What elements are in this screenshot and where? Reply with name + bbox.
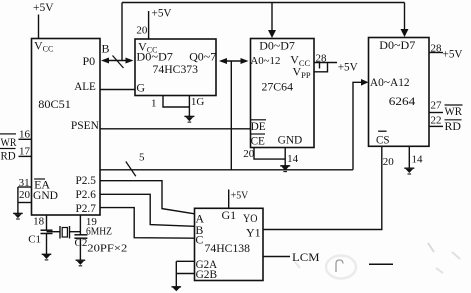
svg-text:C: C [195,233,203,247]
wire 80C51 pin31 EA stub [18,186,32,188]
watermark glyph [336,260,343,272]
svg-text:YO: YO [243,211,258,225]
block U2 74HC373 [135,39,216,96]
svg-text:+5V: +5V [443,47,463,61]
svg-text:74HC138: 74HC138 [205,241,251,255]
wire 6264 pin28 to +5V [429,52,443,54]
svg-text:20: 20 [243,148,255,160]
wire C2 lower lead [79,238,81,260]
block U4 6264 [369,38,430,147]
svg-text:+5V: +5V [231,190,249,202]
svg-text:+5V: +5V [152,5,172,19]
svg-text:G1: G1 [222,208,237,222]
wire 27C64 VCC pin28 to +5V [314,62,337,64]
svg-text:G2B: G2B [196,267,218,281]
wire 1G to ground [188,96,190,117]
wire G2A-G2B to ground [175,261,177,286]
wire crystal right lead [70,231,81,233]
svg-text:31: 31 [19,177,30,189]
svg-text:+5V: +5V [338,59,358,73]
wire 80C51 pin17 stub [19,155,33,157]
wire 74HC373 pin1 jog [163,96,189,108]
bus arrow P0 to D0-D7 [101,58,134,64]
svg-text:C2: C2 [75,237,88,249]
ground below 1G [184,116,194,122]
wire PSEN to DE [100,128,251,130]
wire 6264 pin22 RD [429,125,443,127]
wire crystal left lead [47,231,61,233]
svg-text:P2.5: P2.5 [76,175,97,187]
wire 6264 pin14 ground stem [408,146,410,168]
wire 80C51 pin16 stub [19,138,33,140]
svg-text:D0~D7: D0~D7 [379,38,415,52]
wire P2.7 to C [100,208,195,239]
svg-text:G: G [136,81,145,95]
svg-text:20: 20 [383,156,395,168]
svg-text:1G: 1G [191,96,205,108]
svg-text:80C51: 80C51 [38,97,71,111]
svg-text:14: 14 [412,154,424,166]
svg-text:D0~D7: D0~D7 [259,39,295,53]
svg-text:RD: RD [445,119,462,133]
svg-text:20: 20 [19,189,31,201]
wire top bus left drop to P0 bus [121,3,123,61]
wire address bus riser to 6264 [353,82,362,170]
wire P2.6 to B [100,194,195,226]
svg-text:1: 1 [151,98,157,110]
svg-text:C1: C1 [28,234,41,246]
wire 27C64 pin20-pin14 ground [254,148,285,160]
svg-text:LCM: LCM [292,250,320,264]
wire C1 lower lead [46,234,48,255]
wire address bus P2.0-P2.4 [100,169,353,171]
bus arrow Q0-7 to A0-12 [219,58,249,64]
svg-text:CS: CS [376,132,390,146]
wire 6264 pin27 WR [429,112,443,114]
svg-text:GND: GND [278,135,303,147]
svg-text:P2.7: P2.7 [76,203,97,215]
capacitor C2 plates [74,235,87,238]
svg-text:GND: GND [33,190,58,202]
arrowhead into 27C64 D0-D7 [268,30,276,38]
watermark dash [369,263,393,265]
svg-text:27C64: 27C64 [262,80,294,94]
svg-text:17: 17 [19,146,31,158]
svg-text:WR: WR [1,135,17,149]
arrowhead into 6264 A0-A12 [361,79,369,86]
ground 27C64 pin14 [280,166,290,172]
svg-text:6MHZ: 6MHZ [86,226,112,238]
wire +5V supply to 80C51 VCC [38,15,40,40]
bus slash 5 [126,162,136,177]
wire G2A [176,260,194,262]
wire Y0 to LCM [263,256,290,258]
svg-text:28: 28 [316,52,328,64]
wire +5V to 74HC373 pin20 [148,11,150,39]
wire 27C64 drop from top bus [271,3,273,32]
svg-text:6264: 6264 [389,94,416,108]
crystal Y1 6MHZ [60,226,70,239]
svg-text:DE: DE [251,119,266,133]
arrowhead into 6264 D0-D7 [401,29,409,37]
wire top data bus horizontal [122,2,405,4]
ground below EA/GND [13,213,23,219]
svg-text:28: 28 [431,43,443,55]
svg-text:P2.6: P2.6 [76,189,97,201]
wire G2B [176,273,194,275]
svg-text:ALE: ALE [74,79,96,93]
block U1 80C51 [32,39,101,216]
svg-text:Y1: Y1 [246,226,261,240]
wire Y1 to 6264 CS [263,146,382,229]
svg-text:CE: CE [251,133,265,147]
svg-text:27: 27 [431,100,443,112]
svg-text:22: 22 [431,115,442,127]
svg-text:A0~A12: A0~A12 [370,77,410,89]
wire EA-GND to ground [17,187,19,213]
wire XTAL1 pin18 [46,215,48,230]
wire 27C64 VPP bracket [314,63,328,72]
svg-text:20: 20 [136,25,148,37]
svg-text:+5V: +5V [33,0,54,14]
wire ALE to G [100,89,135,91]
svg-text:5: 5 [139,151,145,163]
svg-text:18: 18 [33,216,45,228]
ground below G2B [172,287,182,291]
wire Q bus drop to address bus [230,61,232,170]
wire +5V to 74HC138 G1 [228,190,230,209]
block U3 27C64 [251,39,315,148]
wire 80C51 pin20 GND stub [18,202,32,204]
watermark smudge marks [428,243,434,252]
capacitor C1 plates [41,230,53,233]
ground below C1 [42,254,52,260]
svg-text:B: B [102,42,110,56]
bus slash B [113,56,124,69]
svg-text:P0: P0 [83,54,96,68]
svg-text:RD: RD [1,149,17,163]
svg-text:WR: WR [445,104,463,118]
svg-text:A0~12: A0~12 [250,55,280,67]
block U5 74HC138 [195,208,264,280]
wire 6264 drop from top bus [404,3,406,31]
svg-text:14: 14 [287,153,299,165]
watermark circle [326,256,356,279]
wire 27C64 pin28 tick [319,63,321,69]
wire P2.5 to A [100,181,195,214]
ground below C2 [76,260,86,266]
svg-text:PSEN: PSEN [71,118,99,132]
svg-text:20PF×2: 20PF×2 [87,243,127,255]
svg-text:74HC373: 74HC373 [153,62,199,76]
ground 6264 pin14 [404,168,414,174]
svg-text:16: 16 [19,129,31,141]
wire XTAL2 pin19 [79,215,81,235]
